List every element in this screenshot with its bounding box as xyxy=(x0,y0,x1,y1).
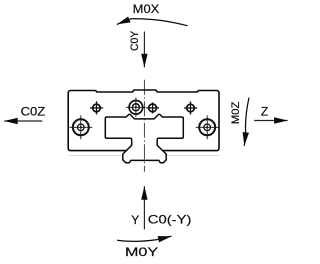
svg-text:C0Z: C0Z xyxy=(21,104,46,118)
svg-text:M0Z: M0Z xyxy=(230,102,242,125)
svg-text:Z: Z xyxy=(261,104,268,118)
svg-text:M0Y: M0Y xyxy=(125,245,158,259)
svg-text:C0(-Y): C0(-Y) xyxy=(148,213,192,227)
svg-text:Y: Y xyxy=(131,213,139,227)
svg-text:C0Y: C0Y xyxy=(129,30,141,51)
svg-text:M0X: M0X xyxy=(133,2,160,16)
